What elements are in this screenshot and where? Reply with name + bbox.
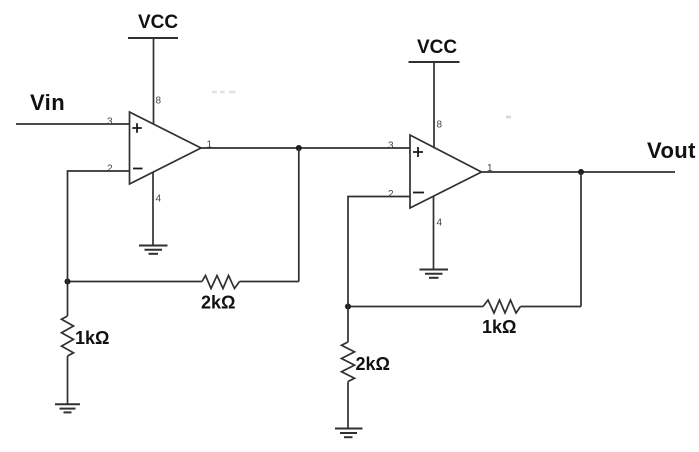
- wire U1 inverting input (junction up and right to pin 2): [68, 171, 130, 282]
- op-amp U2: [410, 135, 482, 208]
- svg-text:3: 3: [107, 116, 113, 127]
- wire VCC to U1 pin 8: [153, 38, 155, 125]
- wire feedback left segment (U2): [348, 306, 483, 308]
- wire feedback right segment (U1): [240, 281, 299, 283]
- svg-text:VCC: VCC: [417, 37, 457, 58]
- wire feedback left segment (U1): [68, 281, 203, 283]
- wire feedback vertical (U2 output down): [580, 172, 582, 307]
- resistor 2kΩ (U1 feedback): [202, 276, 240, 289]
- svg-text:2: 2: [388, 189, 394, 200]
- wire feedback right segment (U2): [521, 306, 582, 308]
- op-amp U1: [130, 112, 202, 184]
- ground (2kΩ right): [335, 429, 363, 438]
- resistor 1kΩ (U2 feedback): [483, 300, 521, 313]
- svg-text:3: 3: [388, 140, 394, 151]
- svg-text:8: 8: [156, 96, 162, 107]
- node junction at U1 output: [296, 145, 302, 151]
- svg-text:Vin: Vin: [30, 90, 65, 115]
- wire U2 output to Vout: [482, 171, 676, 173]
- svg-text:2kΩ: 2kΩ: [201, 293, 235, 313]
- wire U1 output to U2 non-inverting input: [201, 147, 410, 149]
- faint artifact dashes (compression remnants): [212, 92, 511, 117]
- ground (1kΩ left): [55, 404, 80, 412]
- svg-text:VCC: VCC: [138, 12, 178, 33]
- wire U1 pin 4 to ground: [152, 172, 154, 245]
- wire U2 inverting input (junction up and right to pin 2): [348, 197, 410, 307]
- svg-text:2: 2: [107, 163, 113, 174]
- ground (U2 pin 4): [420, 270, 449, 278]
- svg-text:4: 4: [437, 218, 443, 229]
- node junction feedback / 1kΩ / inverting input (U1): [65, 279, 71, 285]
- node junction at U2 output: [578, 169, 584, 175]
- wire Vin to U1 pin 3 (non-inverting input): [16, 123, 130, 125]
- resistor 1kΩ (U1 to ground): [62, 282, 74, 405]
- svg-text:2kΩ: 2kΩ: [356, 354, 390, 374]
- svg-text:1kΩ: 1kΩ: [75, 328, 109, 348]
- node junction feedback / 2kΩ / inverting input (U2): [345, 304, 351, 310]
- wire U2 pin 4 to ground: [433, 197, 435, 270]
- svg-text:Vout: Vout: [647, 138, 696, 163]
- svg-text:1kΩ: 1kΩ: [482, 317, 516, 337]
- supply VCC (U2): [409, 37, 460, 62]
- supply VCC (U1): [128, 12, 178, 38]
- wire feedback vertical (U1 output down): [298, 148, 300, 282]
- wire VCC to U2 pin 8: [433, 62, 435, 149]
- svg-text:8: 8: [437, 120, 443, 131]
- resistor 2kΩ (U2 to ground): [342, 307, 355, 429]
- ground (U1 pin 4): [139, 246, 168, 254]
- svg-text:4: 4: [156, 194, 162, 205]
